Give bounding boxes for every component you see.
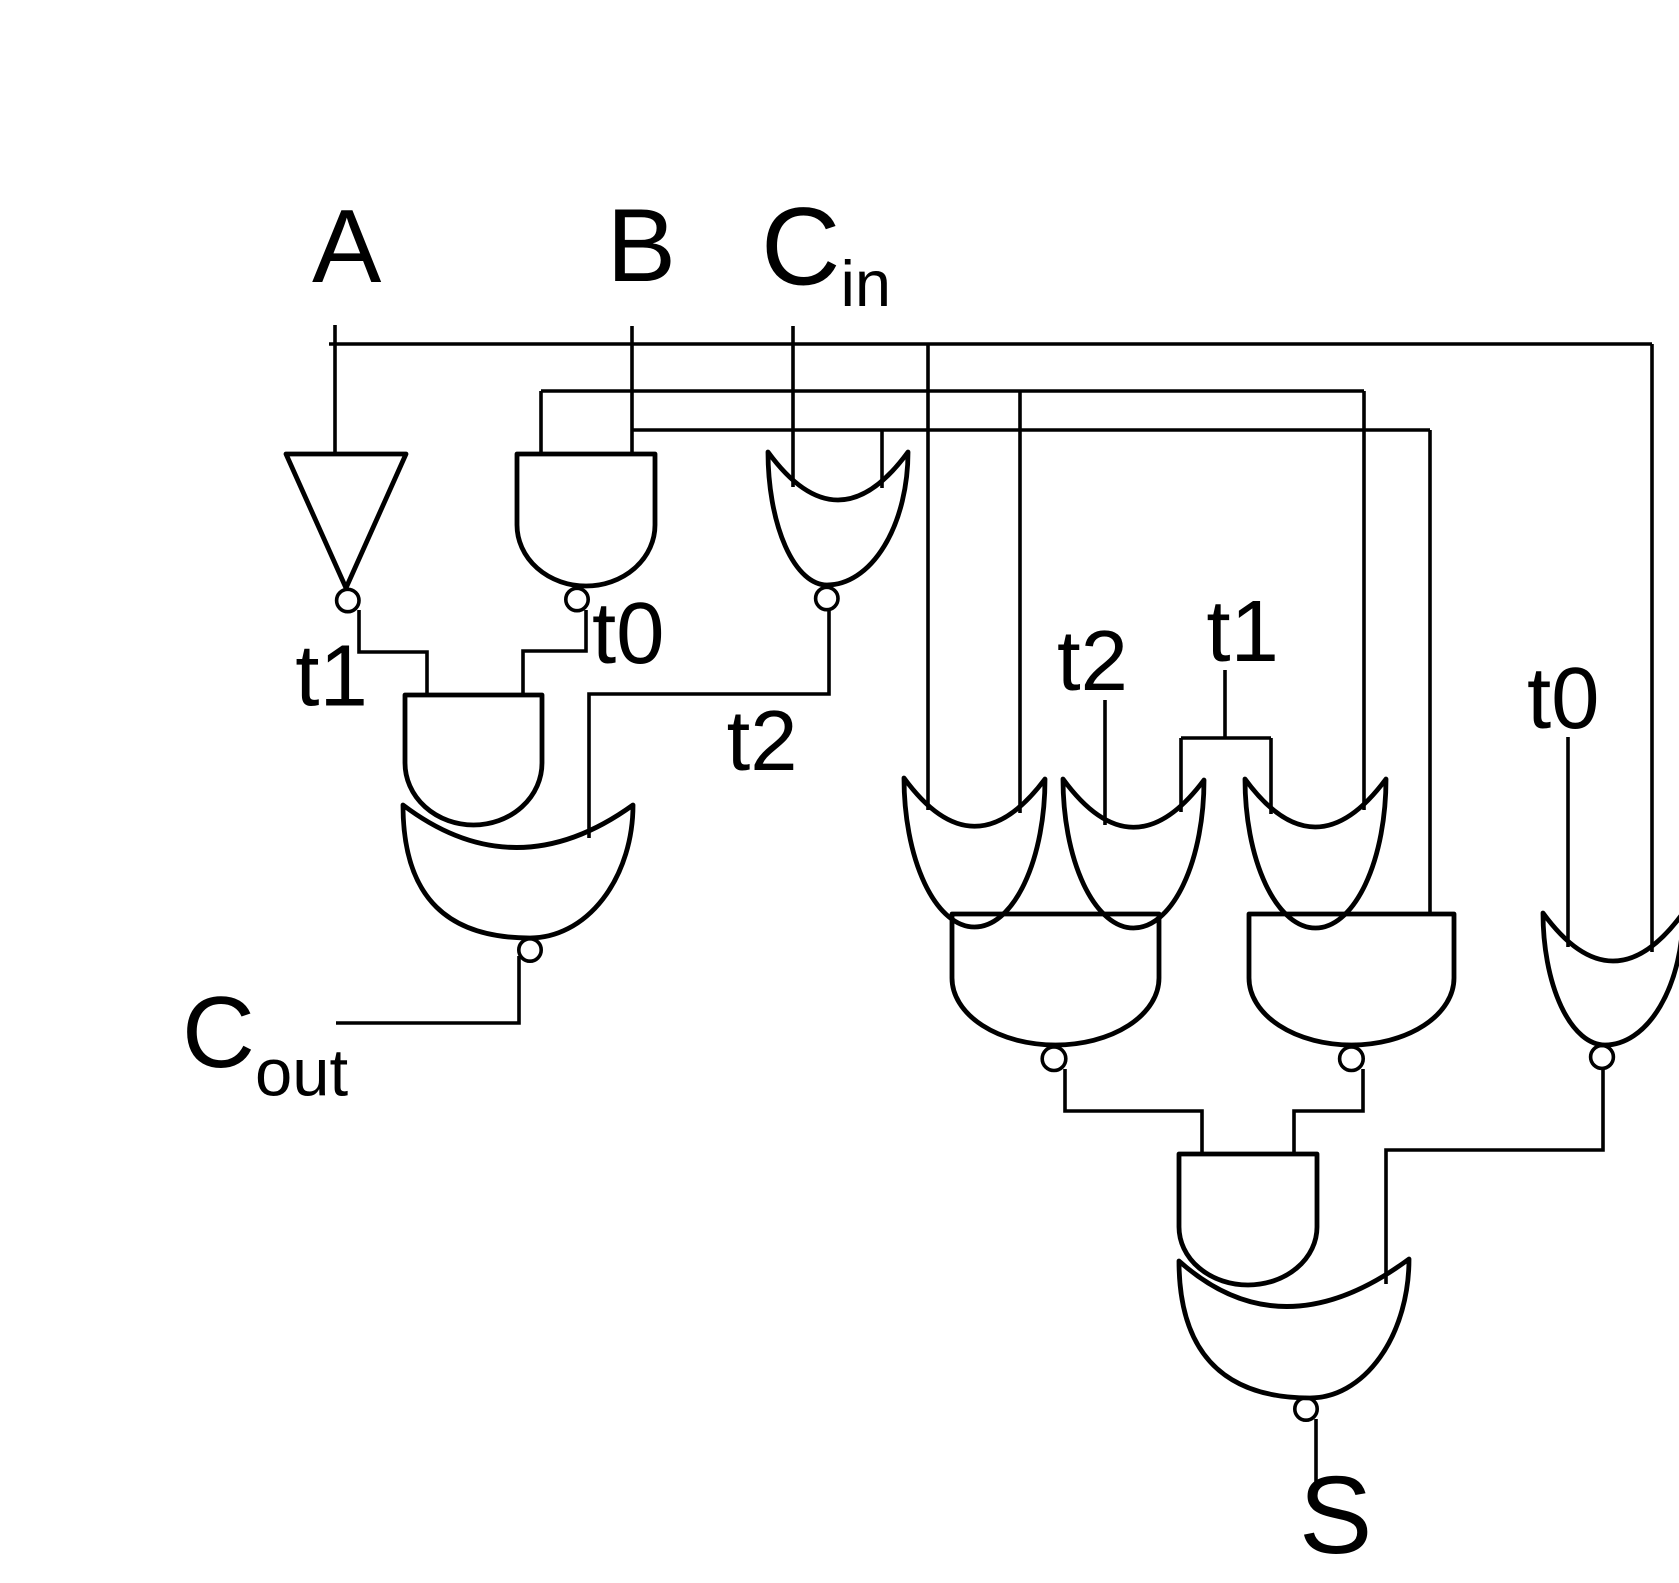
NOR U5 bubble: [519, 939, 541, 961]
NOR U3 bubble: [816, 587, 838, 609]
AND U4 body: [405, 695, 542, 825]
wire t1 from inverter U1 to AND U4: [359, 610, 427, 696]
wire t1 mid stub: [1223, 670, 1227, 738]
svg-text:t1: t1: [1206, 583, 1279, 680]
wire B bus right drop to NAND U8: [1428, 430, 1432, 914]
NOR U11 bubble: [1295, 1398, 1317, 1420]
wire t1 bracket horizontal: [1181, 736, 1271, 740]
svg-text:B: B: [607, 188, 676, 304]
wire NAND U7 output to AND U10: [1065, 1069, 1202, 1154]
NOR U5 body (Cout gate): [403, 805, 633, 938]
wire t0 from NAND U2 to AND U4: [523, 610, 586, 695]
wire Cin input stub: [791, 326, 795, 487]
wire B bus horizontal: [632, 428, 1430, 432]
wire Cin bus left drop into NAND U2: [539, 391, 543, 454]
NAND U8 bubble: [1340, 1047, 1364, 1071]
wire Cin branch down to OR-a: [1018, 391, 1022, 813]
wire Cin bus right drop to OR-c: [1362, 391, 1366, 810]
OR-c body: [1245, 779, 1386, 928]
svg-text:t2: t2: [727, 694, 798, 789]
wire A branch down right edge to NOR U9: [1650, 344, 1654, 952]
wire t2 from NOR U3 to NOR U5: [589, 610, 829, 838]
wire B branch into NOR U3: [880, 430, 884, 488]
wire Cout output: [336, 956, 519, 1023]
wire t0 right stub into NOR U9: [1566, 737, 1570, 947]
svg-text:t2: t2: [1057, 614, 1128, 709]
svg-text:t1: t1: [295, 628, 368, 725]
wire Cin bus horizontal: [541, 389, 1364, 393]
NAND U2 body: [517, 454, 655, 586]
wire NOR U9 output to NOR U11: [1386, 1069, 1603, 1284]
NOR U9 bubble: [1591, 1046, 1614, 1069]
inverter U1 triangle: [286, 454, 406, 588]
wire A bus horizontal: [329, 342, 1652, 346]
wire t2 mid stub into OR-b: [1103, 700, 1107, 825]
wire t1 bracket right drop into OR-c: [1269, 738, 1273, 814]
OR-b body: [1063, 779, 1204, 928]
NOR U9 body (right): [1543, 913, 1679, 1045]
NAND U7 bubble: [1042, 1047, 1066, 1071]
wire A input stub: [333, 325, 337, 454]
svg-text:S: S: [1299, 1454, 1372, 1577]
wire A branch down to OR-a: [926, 344, 930, 810]
AND U10 body: [1179, 1154, 1317, 1285]
NAND U8 body: [1249, 914, 1454, 1045]
svg-text:t0: t0: [592, 585, 665, 682]
svg-text:t0: t0: [1527, 650, 1600, 747]
wire S output: [1314, 1419, 1318, 1482]
NAND U7 body: [952, 914, 1159, 1045]
wire t1 bracket left drop into OR-b: [1179, 738, 1183, 812]
svg-text:A: A: [312, 189, 382, 305]
inverter U1 bubble: [337, 589, 359, 611]
OR-a body: [904, 778, 1045, 927]
wire B input stub: [630, 326, 634, 454]
NOR U3 body: [768, 452, 908, 585]
NOR U11 body (S gate): [1179, 1259, 1409, 1398]
wire NAND U8 output to AND U10: [1294, 1069, 1363, 1154]
NAND U2 bubble: [566, 588, 588, 610]
